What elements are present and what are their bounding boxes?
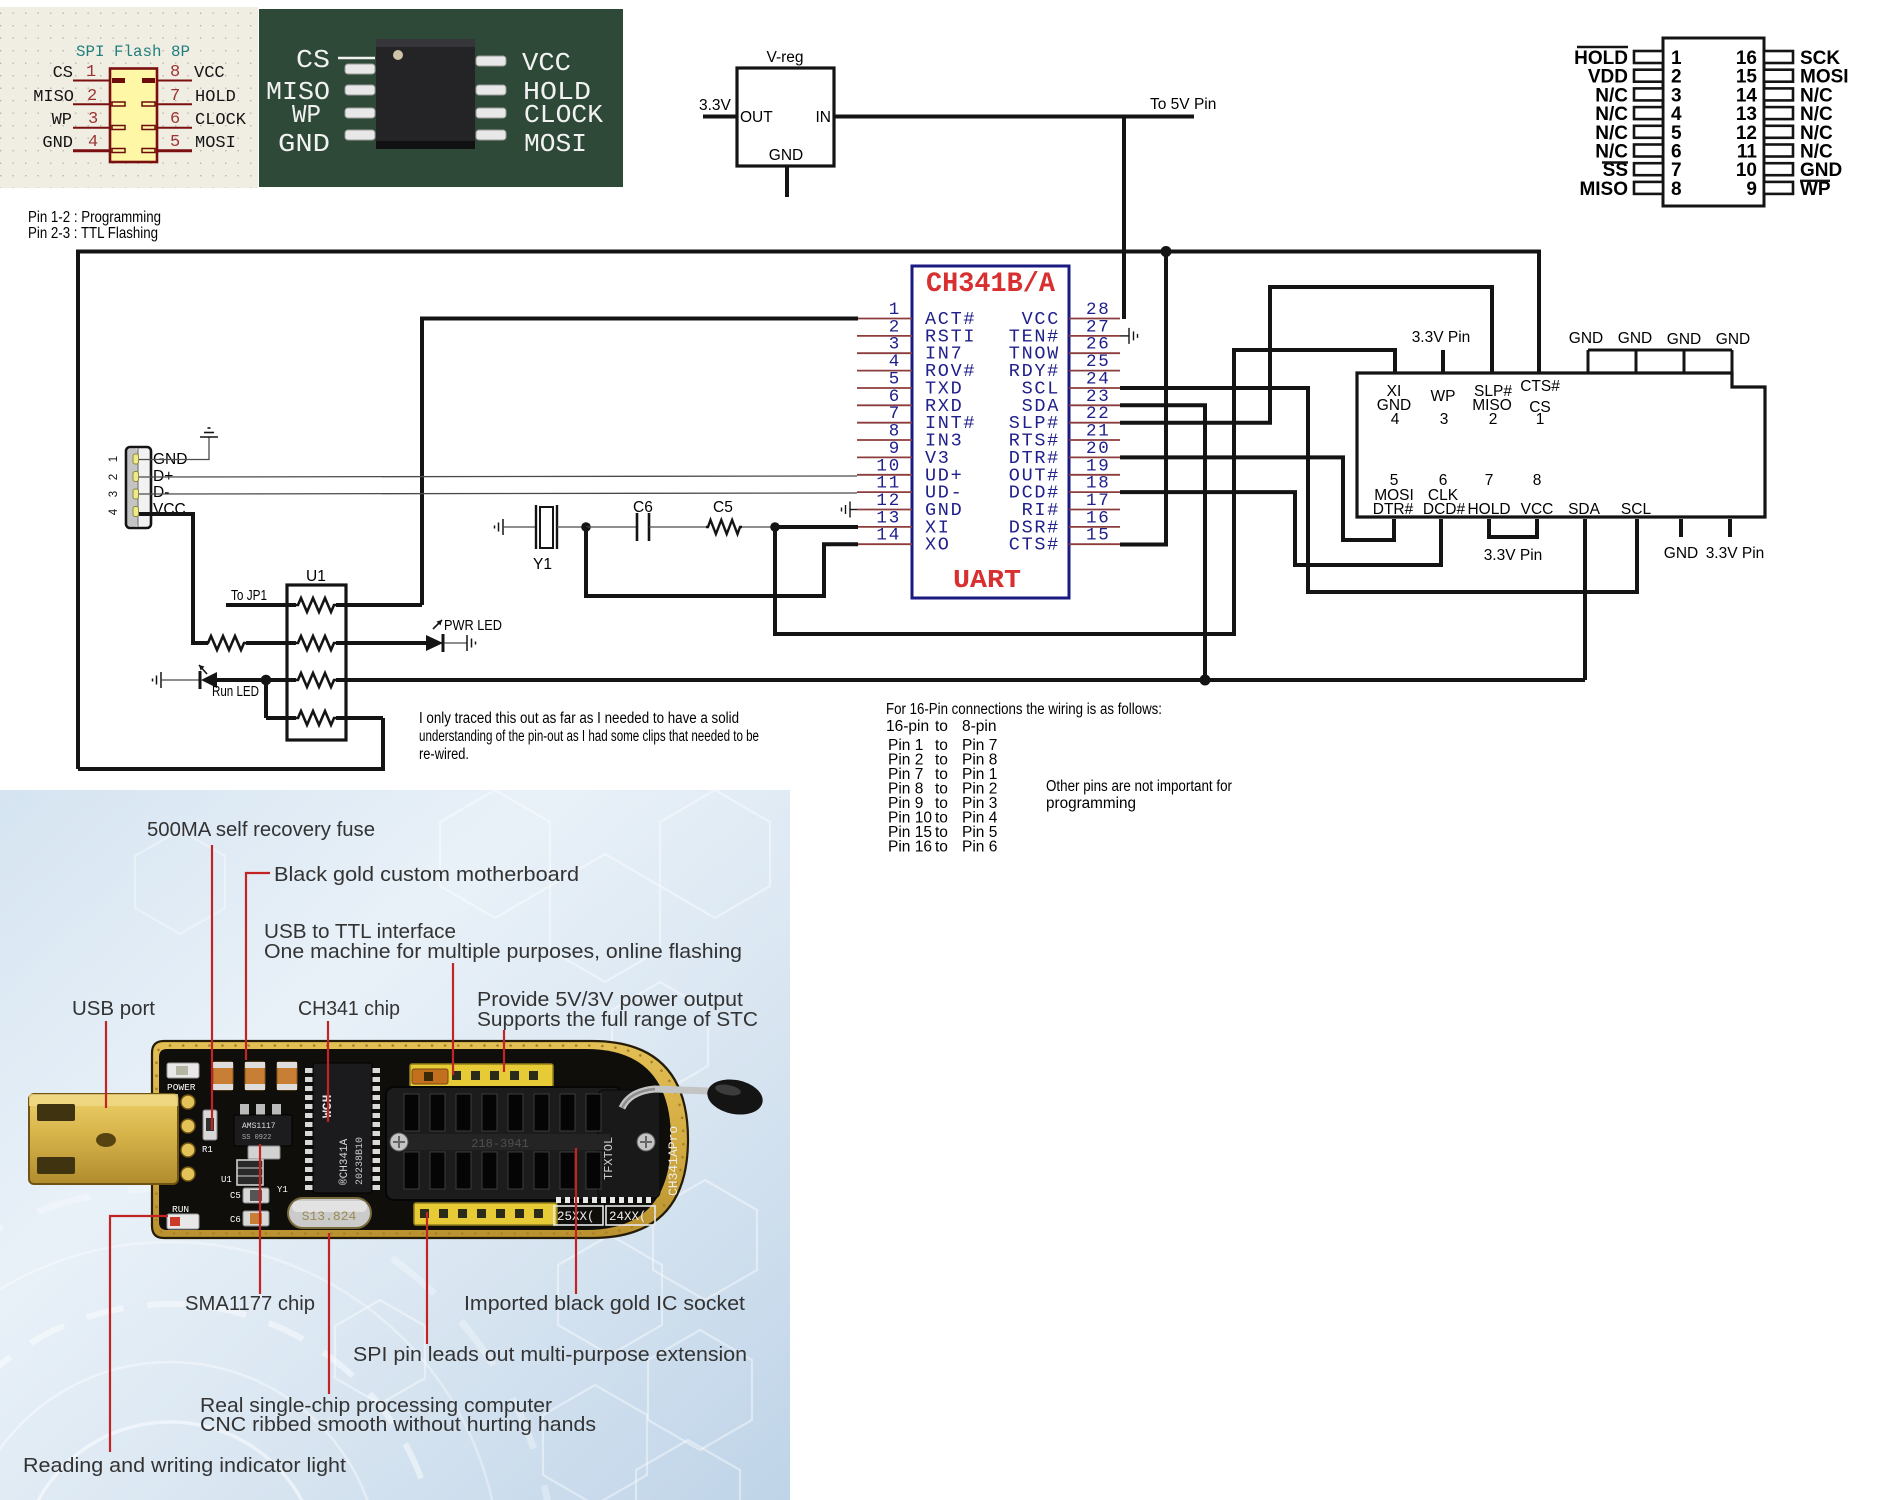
overline HOLD <box>1577 46 1628 48</box>
PCB labels left: CS MISO WP GND <box>266 45 330 159</box>
socket pin2 label SLP# MISO 2 <box>1472 383 1512 428</box>
ground marker Run LED <box>153 672 162 688</box>
wire 3.3V stub to V-reg OUT <box>703 115 737 119</box>
svg-text:GND: GND <box>1664 545 1698 562</box>
U1 network on board <box>221 1160 263 1185</box>
svg-text:VCC: VCC <box>194 64 225 83</box>
wire PWR LED to ground <box>444 642 467 644</box>
svg-text:®CH341A: ®CH341A <box>339 1138 351 1185</box>
footprint pin numbers 5-8 <box>170 63 180 152</box>
svg-text:500MA self recovery fuse: 500MA self recovery fuse <box>147 819 375 841</box>
top yellow header <box>410 1064 553 1087</box>
svg-text:9: 9 <box>1746 179 1757 200</box>
svg-text:WP: WP <box>292 100 321 130</box>
pin 2 pad <box>112 102 155 106</box>
note: 16-pin wiring table rows <box>888 737 998 856</box>
wire V-reg IN to 5V pin <box>834 115 1194 119</box>
pin 3 pad <box>112 126 155 130</box>
svg-text:GND: GND <box>1618 330 1652 347</box>
svg-text:to: to <box>935 839 948 856</box>
note: 16-pin wiring table header <box>886 701 1162 735</box>
svg-text:2: 2 <box>87 87 97 106</box>
overline SS <box>1602 161 1628 163</box>
pin 4 pad <box>112 149 155 153</box>
socket GND tabs <box>1588 350 1732 373</box>
svg-text:HOLD: HOLD <box>1467 501 1510 518</box>
wire SLP# pin22 to socket pin2 <box>1120 287 1492 423</box>
3.3V Pin stub top <box>1441 350 1445 373</box>
wire row4 to bottom return <box>336 716 383 720</box>
svg-text:Black gold custom motherboard: Black gold custom motherboard <box>274 864 579 886</box>
svg-text:WP: WP <box>1431 388 1456 405</box>
wire row4 left <box>266 716 296 720</box>
ZIF lever <box>622 1075 766 1119</box>
socket pin3 label WP 3 <box>1431 388 1456 428</box>
wire C6 to C5 <box>649 526 706 528</box>
socket pin1 label CTS# CS 1 <box>1520 378 1560 428</box>
socket pin4 label XI GND 4 <box>1377 383 1411 428</box>
callout line motherboard <box>246 873 270 1060</box>
svg-text:4: 4 <box>1391 411 1400 428</box>
wire CTS# pin15 riser <box>1120 252 1166 545</box>
resistor network U1 box <box>287 585 346 740</box>
svg-text:3.3V Pin: 3.3V Pin <box>1412 329 1471 346</box>
svg-text:4: 4 <box>88 133 98 152</box>
svg-text:AMS1117: AMS1117 <box>242 1122 276 1131</box>
fuse capacitors row <box>213 1062 297 1090</box>
green PCB photo of SOIC-8 chip <box>259 9 623 187</box>
wire ACT# pin1 to U1 <box>422 319 858 606</box>
svg-text:GND: GND <box>1716 331 1750 348</box>
svg-text:CTS#: CTS# <box>1009 535 1060 556</box>
svg-text:VCC: VCC <box>1521 501 1554 518</box>
svg-text:programming: programming <box>1046 795 1136 812</box>
wire top bus CS/CTS# <box>78 252 1539 770</box>
svg-text:7: 7 <box>170 87 180 106</box>
svg-text:Supports the full range of STC: Supports the full range of STC <box>477 1009 758 1031</box>
wire GND stub right <box>1679 519 1683 537</box>
product photo background <box>0 790 790 1500</box>
svg-text:3.3V Pin: 3.3V Pin <box>1706 545 1765 562</box>
svg-text:1: 1 <box>1536 411 1545 428</box>
socket pin5 label 5 MOSI DTR# <box>1373 472 1414 518</box>
svg-text:D-: D- <box>153 484 169 501</box>
wire DCD# pin18 to socket pin6 <box>1120 492 1441 565</box>
wire 3.3V stub right <box>1728 519 1732 537</box>
callout line run light <box>110 1216 168 1452</box>
CH341 right pin names <box>1009 309 1060 556</box>
ground marker crystal <box>495 519 504 535</box>
wire XI net to socket pin4 <box>775 350 1395 634</box>
svg-text:SCL: SCL <box>1621 501 1652 518</box>
SPI Flash 8P footprint diagram background <box>0 7 258 188</box>
svg-text:CNC ribbed smooth without hurt: CNC ribbed smooth without hurting hands <box>200 1414 596 1436</box>
resistor U1-C <box>296 673 336 687</box>
wire node A to C6 <box>586 526 637 528</box>
svg-text:C6: C6 <box>633 499 653 516</box>
wire node A to XO pin14 <box>586 527 858 596</box>
note: jumper pin functions <box>28 209 161 242</box>
SOIC16 pin numbers right 9-16 <box>1736 48 1758 200</box>
svg-text:3: 3 <box>88 110 98 129</box>
wire D+ to pin 10 <box>139 476 857 477</box>
wire DTR# pin20 to socket pin5 <box>1120 457 1394 540</box>
wire Run LED to U1-C <box>217 678 296 682</box>
resistor U1-A <box>296 598 336 612</box>
svg-text:20238B10: 20238B10 <box>355 1137 366 1185</box>
wire crystal to node A <box>557 526 586 528</box>
wire row1 to ACT# riser <box>336 603 422 607</box>
footprint pin names right: VCC HOLD CLOCK MOSI <box>194 64 247 153</box>
svg-text:CLOCK: CLOCK <box>195 111 247 130</box>
wire SDA stub <box>1583 519 1587 680</box>
svg-text:3.3V: 3.3V <box>699 97 732 114</box>
svg-text:6: 6 <box>170 110 180 129</box>
footprint pin numbers 1-4 <box>86 63 98 152</box>
svg-text:Reading and writing indicator: Reading and writing indicator light <box>23 1455 346 1477</box>
svg-text:One machine for multiple purpo: One machine for multiple purposes, onlin… <box>264 941 742 963</box>
wire D- to pin 11 <box>139 493 857 494</box>
25XX 24XX silkscreen <box>554 1197 655 1225</box>
wire R2 to U1-B <box>246 641 296 645</box>
svg-text:UART: UART <box>953 565 1021 595</box>
svg-text:CH341 chip: CH341 chip <box>298 998 400 1020</box>
svg-text:Run LED: Run LED <box>212 684 259 700</box>
POWER led and label <box>167 1063 199 1093</box>
SOIC-8 chip body on PCB <box>376 39 475 149</box>
svg-text:PWR LED: PWR LED <box>444 618 502 634</box>
footprint pin lines left <box>73 81 110 151</box>
callout line usb port <box>105 1021 107 1108</box>
svg-text:CLOCK: CLOCK <box>524 100 603 130</box>
svg-text:V-reg: V-reg <box>766 49 803 66</box>
svg-text:Pin 16: Pin 16 <box>888 839 932 856</box>
svg-text:Imported black gold IC socket: Imported black gold IC socket <box>464 1293 745 1315</box>
PWR LED D1 <box>426 620 443 652</box>
socket pin7 label 7 HOLD <box>1467 472 1510 518</box>
callout line spi <box>426 1212 428 1344</box>
svg-text:XO: XO <box>925 535 951 556</box>
svg-text:To 5V Pin: To 5V Pin <box>1150 96 1216 113</box>
svg-text:DCD#: DCD# <box>1423 501 1466 518</box>
svg-text:SS 0922: SS 0922 <box>242 1134 271 1142</box>
svg-text:SMA1177 chip: SMA1177 chip <box>185 1293 315 1315</box>
svg-text:POWER: POWER <box>167 1082 196 1093</box>
callout line 5v3v <box>503 1030 505 1072</box>
svg-text:understanding of the pin-out a: understanding of the pin-out as I had so… <box>419 728 759 745</box>
C5 C6 capacitors on board <box>230 1188 269 1226</box>
USB pin labels <box>153 451 187 518</box>
svg-text:RUN: RUN <box>172 1204 189 1215</box>
svg-text:8: 8 <box>1533 472 1542 489</box>
CH341A chip on board <box>305 1063 380 1193</box>
R1 resistor <box>202 1110 217 1155</box>
decorative hexagons <box>135 790 770 1500</box>
SOIC-8 left pads <box>345 64 375 140</box>
svg-text:U1: U1 <box>221 1175 232 1185</box>
svg-text:8: 8 <box>170 63 180 82</box>
wire V-reg GND stub <box>785 166 789 197</box>
wire USB VCC down to R2 <box>139 514 208 643</box>
svg-text:C5: C5 <box>713 499 733 516</box>
PCB labels right: VCC HOLD CLOCK MOSI <box>522 48 603 159</box>
svg-text:CS: CS <box>296 45 330 75</box>
svg-text:WP: WP <box>1800 179 1831 200</box>
wire ground to crystal <box>503 526 536 528</box>
wire HOLD-VCC 3.3V loop <box>1489 519 1537 537</box>
svg-text:2: 2 <box>1489 411 1498 428</box>
USB plug <box>29 1094 178 1184</box>
CH341 right pin lines 15-28 <box>1069 319 1120 545</box>
ZIF socket block outline <box>1357 373 1765 517</box>
note: trace disclaimer <box>419 710 759 763</box>
GND tab labels <box>1569 330 1750 348</box>
footprint pin names left: CS MISO WP GND <box>33 64 74 153</box>
SOIC16 right pin boxes <box>1764 51 1793 194</box>
svg-text:USB port: USB port <box>72 998 155 1020</box>
crystal Y1 <box>536 505 557 549</box>
AMS1117 regulator chip <box>234 1104 292 1159</box>
capacitor C5 (drawn as zigzag) <box>706 520 742 534</box>
svg-text:HOLD: HOLD <box>195 88 236 107</box>
resistor U1-D <box>296 711 336 725</box>
svg-text:To JP1: To JP1 <box>231 588 267 604</box>
voltage regulator V-reg <box>737 68 834 166</box>
board black interior <box>159 1049 671 1230</box>
svg-text:4: 4 <box>108 508 120 515</box>
ground marker on GND pin 12 <box>842 502 858 518</box>
board rivet dots <box>157 1046 684 1234</box>
CH341 left pin lines 1-14 <box>857 319 912 545</box>
crystal S13.824 <box>288 1198 371 1228</box>
svg-text:CH341B/A: CH341B/A <box>926 269 1055 300</box>
svg-text:MOSI: MOSI <box>195 134 236 153</box>
svg-text:218-3941: 218-3941 <box>471 1137 529 1151</box>
svg-text:3: 3 <box>1440 411 1449 428</box>
svg-text:I only traced this out as far: I only traced this out as far as I neede… <box>419 710 739 727</box>
svg-text:TFXTOL: TFXTOL <box>602 1137 616 1180</box>
svg-text:24XX(: 24XX( <box>609 1210 647 1224</box>
svg-text:re-wired.: re-wired. <box>419 746 469 763</box>
resistor R2 series <box>206 636 246 650</box>
callout line single-chip <box>328 1233 330 1394</box>
callout line socket <box>575 1148 577 1294</box>
no-connect marker on TEN# pin 27 <box>1120 328 1138 344</box>
callout line fuse <box>211 845 213 1130</box>
svg-text:For 16-Pin connections the wir: For 16-Pin connections the wiring is as … <box>886 701 1162 718</box>
svg-text:3: 3 <box>108 491 120 497</box>
SPI flash chip body U-footprint <box>110 69 157 163</box>
svg-text:Provide 5V/3V power output: Provide 5V/3V power output <box>477 989 743 1011</box>
svg-text:Pin 6: Pin 6 <box>962 839 997 856</box>
svg-text:to: to <box>935 718 948 735</box>
svg-text:Pin 1-2 : Programming: Pin 1-2 : Programming <box>28 209 161 226</box>
socket pin6 label 6 CLK DCD# <box>1423 472 1466 518</box>
CH341 left pin numbers <box>876 300 901 546</box>
bottom yellow header <box>414 1203 557 1225</box>
wire 5V down to CH341 VCC pin 28 <box>1122 117 1126 320</box>
node junction SDA bus <box>1200 675 1211 686</box>
ground symbol above USB <box>200 428 218 437</box>
svg-text:WP: WP <box>52 111 72 130</box>
wire C5 to node B <box>742 526 775 528</box>
svg-text:7: 7 <box>1485 472 1494 489</box>
pin 1 pad <box>112 78 155 83</box>
svg-text:CS: CS <box>53 64 73 83</box>
svg-text:USB to TTL interface: USB to TTL interface <box>264 921 456 943</box>
footprint pin lines right <box>157 81 192 151</box>
svg-text:GND: GND <box>42 134 73 153</box>
svg-text:2: 2 <box>108 474 120 480</box>
resistor U1-B <box>296 636 336 650</box>
wire SDA bus row3 <box>336 678 1585 682</box>
svg-text:C5: C5 <box>230 1191 241 1201</box>
socket pin8 label 8 VCC <box>1521 472 1554 518</box>
USB plug solder pins <box>181 1095 195 1181</box>
wire row2 to PWR LED <box>336 641 426 645</box>
decorative circles bottom left <box>0 1188 554 1500</box>
USB pin numbers 1 2 3 4 (rotated) <box>108 456 120 515</box>
svg-text:GND: GND <box>1569 330 1603 347</box>
svg-text:SDA: SDA <box>1568 501 1601 518</box>
wire SCL pin24 to socket <box>1120 388 1637 592</box>
SOIC16 left pin boxes <box>1634 51 1663 194</box>
svg-text:1: 1 <box>86 63 96 82</box>
SOIC16 pin numbers left 1-8 <box>1671 48 1682 200</box>
svg-text:C6: C6 <box>230 1215 241 1225</box>
wire ground to Run LED <box>161 679 200 681</box>
capacitor C6 <box>637 513 649 541</box>
wire SDA pin23 down to bus <box>1120 405 1205 680</box>
svg-text:MISO: MISO <box>33 88 74 107</box>
SOIC16 left labels <box>1574 48 1628 200</box>
svg-text:IN: IN <box>816 109 832 126</box>
CS marker line on PCB <box>338 57 375 60</box>
SOIC-8 right pads <box>476 56 506 140</box>
svg-text:U1: U1 <box>306 568 326 585</box>
overline WP <box>1800 180 1830 182</box>
svg-text:DTR#: DTR# <box>1373 501 1414 518</box>
node junction Run LED row <box>261 675 272 686</box>
wire node B to XI pin13 <box>775 525 858 529</box>
callout line usb-ttl <box>452 963 454 1075</box>
svg-text:Y1: Y1 <box>533 556 552 573</box>
svg-text:16-pin: 16-pin <box>886 718 929 735</box>
svg-text:VCC: VCC <box>522 48 571 78</box>
CH341 left pin names <box>925 309 976 556</box>
svg-text:SPI pin leads out multi-purpos: SPI pin leads out multi-purpose extensio… <box>353 1344 747 1366</box>
svg-text:3.3V Pin: 3.3V Pin <box>1484 547 1543 564</box>
svg-text:8: 8 <box>1671 179 1682 200</box>
svg-text:MOSI: MOSI <box>524 129 587 159</box>
svg-text:S13.824: S13.824 <box>302 1209 357 1224</box>
svg-text:5: 5 <box>170 133 180 152</box>
svg-text:14: 14 <box>876 526 901 546</box>
node A junction <box>581 522 591 532</box>
callout line ch341 <box>327 1021 329 1122</box>
svg-text:MISO: MISO <box>1579 179 1628 200</box>
ground marker PWR LED <box>467 635 476 651</box>
svg-text:8-pin: 8-pin <box>962 718 996 735</box>
svg-text:R1: R1 <box>202 1145 213 1155</box>
CH341B/A IC body <box>912 266 1069 598</box>
svg-text:CTS#: CTS# <box>1520 378 1560 395</box>
svg-text:GND: GND <box>1667 331 1701 348</box>
svg-text:GND: GND <box>769 147 803 164</box>
callout line sma1177 <box>259 1144 261 1294</box>
note: other pins <box>1046 778 1232 812</box>
RUN led and label <box>167 1204 199 1229</box>
CH341 right pin numbers <box>1086 300 1111 546</box>
svg-text:OUT: OUT <box>740 109 773 126</box>
wire row1 To JP1 <box>226 603 296 607</box>
node junction top bus to CTS# <box>1161 246 1172 257</box>
svg-text:CH341APro: CH341APro <box>666 1126 681 1196</box>
USB connector J1 body <box>126 447 151 528</box>
16-pin SOIC16 pinout body <box>1663 38 1764 206</box>
svg-text:15: 15 <box>1086 526 1111 546</box>
wire bottom return <box>78 718 383 769</box>
Run LED D2 <box>199 665 217 689</box>
svg-text:SPI Flash 8P: SPI Flash 8P <box>76 43 190 61</box>
svg-text:Y1: Y1 <box>277 1185 288 1195</box>
node B junction <box>770 522 780 532</box>
USB pin pads <box>133 454 139 517</box>
svg-text:Other pins are not important f: Other pins are not important for <box>1046 778 1232 795</box>
ZIF socket <box>386 1087 660 1200</box>
svg-text:GND: GND <box>278 129 330 159</box>
svg-text:1: 1 <box>108 456 120 462</box>
wire junction down to row4 <box>264 680 268 718</box>
SOIC16 right labels <box>1800 48 1849 200</box>
wire USB GND to ground <box>139 437 209 460</box>
svg-text:Pin 2-3 : TTL Flashing: Pin 2-3 : TTL Flashing <box>28 225 158 242</box>
